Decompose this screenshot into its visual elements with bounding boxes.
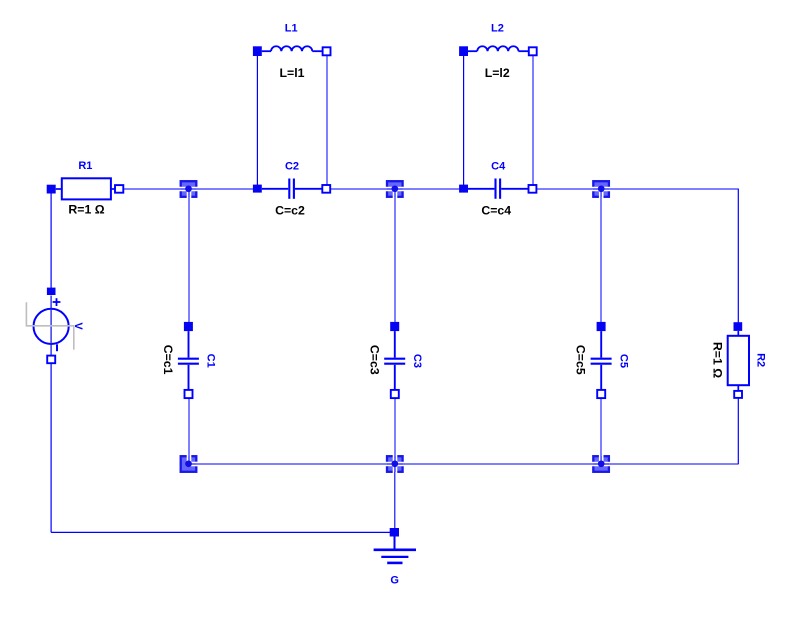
svg-text:C=c4: C=c4 — [481, 204, 511, 218]
wire stubs through N5 — [387, 456, 403, 472]
voltage source V (step voltage) — [26, 288, 84, 364]
node N4 dot — [185, 460, 192, 467]
svg-text:R2: R2 — [755, 353, 767, 367]
wire N1 to C1.p — [188, 189, 190, 323]
svg-text:C=c5: C=c5 — [574, 345, 588, 375]
wire stubs through N3 — [593, 189, 609, 197]
wire C1.n to N4 — [188, 397, 190, 464]
svg-text:R=1 Ω: R=1 Ω — [710, 342, 724, 378]
capacitor C4 — [459, 160, 536, 217]
capacitor C1 — [161, 322, 217, 398]
svg-text:L=l1: L=l1 — [280, 66, 305, 80]
svg-text:G: G — [390, 575, 399, 587]
node N4 junction square — [181, 455, 198, 472]
wire stubs through N4 — [189, 456, 197, 464]
svg-text:V: V — [72, 322, 84, 330]
inductor L1 — [253, 23, 331, 81]
svg-text:C2: C2 — [285, 160, 299, 172]
svg-text:L2: L2 — [491, 23, 504, 35]
svg-text:C=c2: C=c2 — [275, 204, 305, 218]
wire C5.n to N6 — [600, 397, 602, 464]
svg-text:L1: L1 — [285, 23, 298, 35]
wire N3 to top-right corner — [601, 188, 738, 190]
node N1 dot — [185, 185, 192, 192]
node N6 dot — [598, 460, 605, 467]
wire N2 to C3.p — [394, 189, 396, 323]
wire N3 to C5.p — [600, 189, 602, 323]
resistor R2 — [710, 322, 766, 398]
resistor R1 — [47, 160, 124, 217]
svg-text:C4: C4 — [491, 160, 506, 172]
node N6 junction square — [591, 455, 611, 472]
wire L2.p to C4.p — [463, 55, 465, 185]
wire C3.n to N5 — [394, 397, 396, 464]
ground G — [374, 528, 416, 587]
wire bottom rail N5 to N6 — [395, 463, 601, 465]
svg-text:C1: C1 — [205, 354, 217, 368]
wire bottom-left corner to ground pin — [51, 531, 394, 533]
capacitor C5 — [574, 322, 630, 398]
wire C4.n to N3 — [537, 188, 602, 190]
svg-text:R=1 Ω: R=1 Ω — [68, 203, 104, 217]
capacitor C2 — [253, 160, 330, 217]
wire bottom rail N4 to N5 — [189, 463, 396, 465]
wire stubs through N1 — [181, 189, 197, 197]
wire L2.n to C4.n — [532, 55, 534, 186]
node N5 dot — [391, 460, 398, 467]
svg-text:C3: C3 — [411, 354, 423, 368]
wire stubs through N2 — [387, 189, 403, 197]
svg-text:C=c1: C=c1 — [161, 345, 175, 375]
wire stubs through N6 — [593, 456, 609, 464]
wire V.n down to bottom-left corner — [50, 363, 52, 533]
node N1 junction square — [179, 181, 198, 198]
wire C2.n to N2 — [331, 188, 396, 190]
wire N1 to C2.p — [189, 188, 255, 190]
svg-text:R1: R1 — [78, 160, 92, 172]
node N3 dot — [598, 185, 605, 192]
node N2 dot — [391, 185, 398, 192]
wire R1.n to N1 — [123, 188, 188, 190]
svg-text:C=c3: C=c3 — [367, 345, 381, 375]
wire R2.n down to bottom-right corner — [737, 398, 739, 465]
wire L1.p to C2.p — [256, 55, 258, 185]
wire corner down to R2.p — [737, 189, 739, 324]
inductor L2 — [459, 23, 537, 81]
capacitor C3 — [367, 322, 423, 398]
wire N5 down to ground pin — [394, 464, 396, 529]
wire N2 to C4.p — [395, 188, 460, 190]
svg-text:C5: C5 — [617, 354, 629, 368]
svg-text:L=l2: L=l2 — [485, 66, 510, 80]
wire R1.p down to V.p — [50, 193, 52, 289]
node N2 junction square — [385, 181, 405, 198]
wire L1.n to C2.n — [326, 55, 328, 186]
wire bottom rail N6 to corner — [601, 463, 738, 465]
node N5 junction square — [385, 455, 405, 474]
node N3 junction square — [591, 181, 611, 198]
